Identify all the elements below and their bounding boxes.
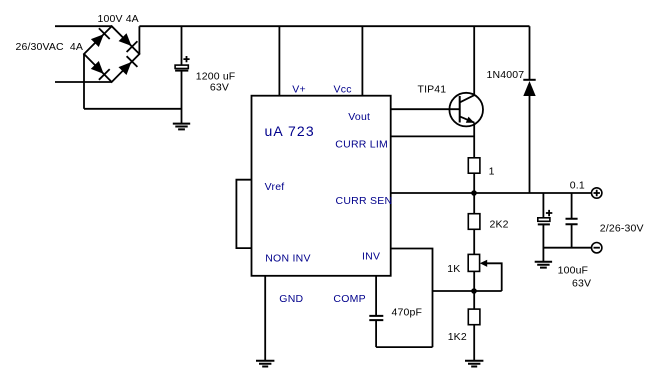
svg-text:63V: 63V bbox=[572, 278, 591, 290]
diode bridge top-left bbox=[91, 28, 110, 47]
wire Vref to NON INV loop bbox=[236, 180, 251, 248]
capacitor 0.1 bbox=[566, 219, 578, 224]
wire INV branch to divider junction bbox=[433, 290, 502, 292]
wire node to 2K2 bbox=[473, 193, 475, 214]
wire top positive rail bbox=[139, 25, 529, 27]
svg-text:100V 4A: 100V 4A bbox=[98, 13, 139, 25]
svg-text:GND: GND bbox=[279, 293, 303, 305]
svg-text:2/26-30V: 2/26-30V bbox=[600, 222, 644, 234]
svg-text:0.1: 0.1 bbox=[570, 180, 585, 192]
svg-text:1: 1 bbox=[489, 166, 495, 178]
wire pin V+ bbox=[278, 26, 280, 96]
svg-text:V+: V+ bbox=[292, 83, 306, 95]
transistor Q1 TIP41 bbox=[449, 93, 483, 127]
diode 1N4007 bbox=[523, 26, 535, 193]
svg-text:COMP: COMP bbox=[333, 293, 366, 305]
svg-text:1K: 1K bbox=[447, 263, 460, 275]
wire 100uF bottom to ground bbox=[542, 224, 544, 261]
svg-text:uA 723: uA 723 bbox=[265, 123, 315, 139]
resistor 2K2 bbox=[468, 214, 480, 230]
svg-text:NON INV: NON INV bbox=[265, 253, 311, 265]
wire INV bbox=[391, 249, 433, 348]
svg-text:Vcc: Vcc bbox=[334, 83, 352, 95]
potentiometer 1K bbox=[468, 254, 502, 291]
wire 2K2 to pot bbox=[473, 229, 475, 254]
wire resistor 1 to node bbox=[473, 173, 475, 193]
plus sign 1200uF bbox=[183, 56, 189, 62]
svg-text:26/30VAC 4A: 26/30VAC 4A bbox=[16, 41, 84, 53]
svg-text:Vref: Vref bbox=[265, 181, 285, 193]
junction node divider bbox=[471, 288, 477, 294]
wire COMP pin bbox=[375, 276, 377, 316]
bridge rectifier diamond outline bbox=[84, 26, 139, 82]
capacitor 100uF 63V bbox=[538, 218, 550, 225]
wire 100uF branch bbox=[542, 193, 544, 218]
wire negative rail to filter cap bbox=[84, 108, 182, 110]
svg-text:INV: INV bbox=[362, 251, 380, 263]
svg-text:Vout: Vout bbox=[348, 111, 370, 123]
svg-text:470pF: 470pF bbox=[392, 307, 423, 319]
svg-text:1K2: 1K2 bbox=[448, 331, 467, 343]
junction node CURR SEN bbox=[471, 190, 477, 196]
wire CURR SEN output line bbox=[391, 192, 592, 194]
terminal positive output bbox=[592, 188, 602, 198]
capacitor 1200uF 63V bbox=[175, 65, 188, 71]
svg-text:63V: 63V bbox=[210, 82, 229, 94]
wire 1200uF top branch bbox=[181, 26, 183, 65]
wire 0.1 cap branch bbox=[571, 193, 573, 219]
diode bridge bottom-left bbox=[91, 61, 110, 80]
terminal negative output bbox=[592, 243, 602, 253]
svg-text:CURR LIM: CURR LIM bbox=[335, 139, 388, 151]
wire GND pin bbox=[264, 276, 266, 361]
wire pin Vcc bbox=[361, 26, 363, 96]
ground under GND pin bbox=[256, 361, 274, 367]
wire emitter down bbox=[473, 123, 475, 158]
svg-text:TIP41: TIP41 bbox=[418, 84, 447, 96]
ground under 100uF bbox=[535, 262, 552, 268]
wire bridge left vertex drop bbox=[83, 54, 85, 109]
svg-text:100uF: 100uF bbox=[558, 264, 589, 276]
svg-text:CURR SEN: CURR SEN bbox=[336, 195, 393, 207]
svg-text:2K2: 2K2 bbox=[490, 219, 509, 231]
svg-text:1N4007: 1N4007 bbox=[487, 69, 525, 81]
wire pot bottom bbox=[473, 271, 475, 309]
resistor 1 bbox=[468, 158, 480, 173]
wire CURR LIM to emitter bbox=[391, 135, 475, 137]
wire collector to rail bbox=[473, 26, 475, 95]
wire 0.1 cap bottom bbox=[571, 224, 573, 248]
diode bridge bottom-right bbox=[119, 56, 138, 75]
capacitor 470pF bbox=[369, 316, 383, 320]
resistor 1K2 bbox=[468, 309, 480, 325]
plus sign 100uF bbox=[546, 210, 552, 216]
wire 1K2 to ground bbox=[473, 325, 475, 361]
diode bridge top-right bbox=[119, 33, 138, 52]
wire AC input bottom bbox=[55, 81, 112, 83]
wire Vout to transistor base bbox=[391, 108, 460, 110]
ground under 1200uF bbox=[173, 124, 190, 130]
wire AC input top bbox=[55, 25, 112, 27]
wire 470pF bottom to INV bbox=[376, 320, 432, 347]
ground under 1K2 bbox=[465, 361, 483, 367]
IC op-amp regulator uA723 body bbox=[252, 96, 391, 276]
wire bridge right vertex riser bbox=[138, 26, 140, 54]
wire 1200uF bottom bbox=[181, 71, 183, 124]
wire negative output line bbox=[543, 247, 591, 249]
